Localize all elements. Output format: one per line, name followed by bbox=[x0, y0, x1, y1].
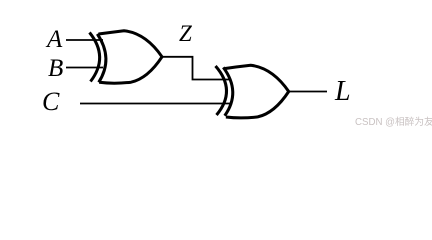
xor gate U1 input arc bbox=[90, 33, 100, 82]
xor gate U2 back edge bbox=[223, 67, 232, 115]
xor gate U2 input arc bbox=[216, 66, 227, 115]
xor gate U1 back edge bbox=[97, 34, 106, 82]
wire L output bbox=[289, 91, 327, 93]
xor gate U2 body bbox=[225, 65, 289, 118]
wire A input bbox=[66, 39, 103, 41]
label L bbox=[335, 76, 351, 108]
wire Z net: gate1 output to gate2 upper input bbox=[161, 57, 230, 80]
label Z bbox=[179, 21, 192, 47]
wire B input bbox=[66, 67, 103, 69]
xor gate U1 body bbox=[99, 31, 163, 83]
watermark bbox=[355, 114, 432, 128]
label B bbox=[48, 55, 63, 83]
label C bbox=[42, 87, 59, 117]
label A bbox=[47, 26, 62, 54]
wire C input bbox=[80, 103, 230, 105]
